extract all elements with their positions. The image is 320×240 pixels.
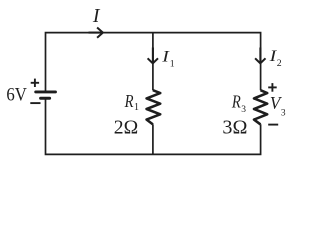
wire: bottom rail and lower left/right rails (node B loop) [46,100,261,155]
V3 minus sign [268,124,278,126]
battery plus sign [31,79,39,87]
wire: middle branch lower segment [152,124,154,154]
resistor R1 zigzag [147,90,161,124]
current arrow I: chevron head [97,28,103,38]
battery V1 6V: positive plate [36,90,56,93]
current arrow I1 (middle branch, pointing down): shaft [152,48,154,63]
battery V1 6V: negative plate [41,97,50,100]
svg-text:6V: 6V [6,85,27,106]
svg-text:2: 2 [277,58,282,69]
current arrow I1: chevron head [148,58,158,63]
svg-text:2Ω: 2Ω [114,117,138,139]
resistor R3 zigzag [254,90,267,124]
current arrow I (top wire, pointing right): shaft [89,32,103,34]
svg-text:3: 3 [241,105,246,115]
wire: top rail and upper left/right rails (node A loop) [46,33,261,91]
battery minus sign [30,102,40,104]
svg-text:1: 1 [170,59,175,70]
svg-text:3Ω: 3Ω [222,117,247,139]
current arrow I2 (right branch, pointing down): shaft [259,48,261,63]
current arrow I2: chevron head [255,58,265,63]
wire: middle branch upper segment [152,33,154,91]
svg-text:1: 1 [134,102,139,113]
svg-text:R: R [124,91,134,111]
svg-text:R: R [231,92,241,112]
V3 plus sign [268,83,277,92]
svg-text:I: I [92,5,101,27]
svg-text:3: 3 [281,109,286,119]
